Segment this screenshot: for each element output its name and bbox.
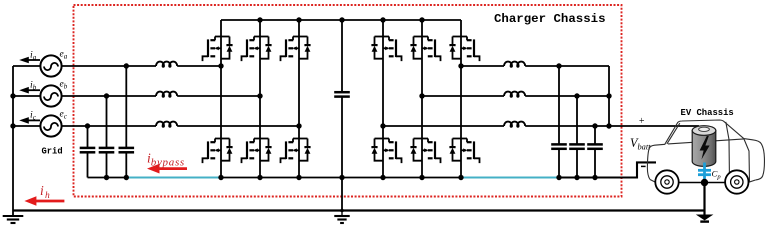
junction dots neutral bus [10, 93, 15, 128]
junction dots phase nodes [218, 63, 463, 128]
MOSFET S8 top leg Y mirrored [410, 37, 440, 62]
MOSFET S7 top leg X mirrored [371, 37, 401, 62]
wire phase b from source to bus [13, 95, 41, 97]
inductor Lo1 [504, 62, 525, 67]
MOSFET S3 top phase c [281, 37, 311, 62]
source eb [40, 85, 61, 106]
junction dot chassis [701, 179, 708, 186]
wire dc bottom rail [221, 177, 463, 179]
red arrow ih [34, 200, 64, 203]
wire phase c from source to bus [13, 125, 41, 127]
wire protective earth bottom [13, 209, 705, 211]
current arrow ib [27, 89, 40, 91]
filter capacitor branch Cfb (phase b) [106, 96, 108, 178]
junction dots filter caps [85, 63, 129, 180]
junction dot earth tap [340, 209, 344, 213]
MOSFET S11 bottom leg Y mirrored [410, 139, 440, 164]
wire ground tap [341, 178, 343, 211]
MOSFET S9 top leg Z mirrored [449, 37, 479, 62]
inductor La [156, 62, 177, 67]
MOSFET S12 bottom leg Z mirrored [449, 139, 479, 164]
wire phase a from source to bridge leg A [62, 65, 221, 67]
wire bridge leg A [220, 20, 222, 178]
wire phase a from source to bus [13, 65, 41, 67]
ground car chassis [696, 215, 714, 222]
MOSFET S10 bottom leg X mirrored [371, 139, 401, 164]
wire bridge leg C [298, 20, 300, 178]
MOSFET S1 top phase a [203, 37, 233, 62]
svg-text:Grid: Grid [42, 146, 63, 156]
source ea [40, 55, 61, 76]
wire phase b from source to bridge leg B [62, 95, 260, 97]
wire bridge leg Z [460, 20, 462, 178]
car body outline [647, 120, 764, 182]
junction dots bottom rail [218, 175, 597, 180]
wire output rail negative [558, 162, 657, 177]
inductor Lo2 [504, 92, 525, 97]
output capacitor Co2 [576, 96, 578, 178]
inductor Lo3 [504, 122, 525, 127]
junction dots top rail [257, 17, 424, 22]
wire chassis down [703, 181, 705, 215]
filter capacitor branch Cfc (phase c) [87, 126, 89, 178]
output capacitor Co3 [594, 126, 596, 178]
MOSFET S6 bottom phase c [281, 139, 311, 164]
wire bypass cyan right segment [462, 177, 558, 179]
filter capacitor branch Cfa (phase a) [125, 66, 127, 178]
svg-text:+: + [638, 116, 645, 127]
ground left [3, 211, 24, 224]
junction dots output lines [556, 63, 611, 128]
inductor Lb [156, 92, 177, 97]
charger chassis dashed boundary [74, 5, 622, 197]
wire neutral bus [12, 66, 14, 211]
current arrow ic [27, 119, 40, 121]
car wheel rear [725, 170, 748, 193]
svg-text:EV Chassis: EV Chassis [681, 108, 734, 118]
current arrow ia [27, 59, 40, 61]
label minus [641, 165, 646, 167]
wire bypass cyan left segment [129, 177, 221, 179]
battery pack [692, 126, 716, 167]
inductor Lc [156, 122, 177, 127]
car wheel front [655, 170, 678, 193]
dc link capacitor Cdc [341, 20, 343, 178]
wire dc top rail [221, 19, 461, 21]
source ec [40, 115, 61, 136]
capacitor Cp parasitic cyan [698, 163, 711, 182]
wire output line top [461, 65, 609, 67]
ground middle [334, 211, 349, 224]
MOSFET S5 bottom phase b [242, 139, 272, 164]
wire output bus [608, 66, 610, 126]
output capacitor Co1 [558, 66, 560, 178]
car underbody wire [656, 182, 747, 184]
red arrow i bypass [158, 167, 187, 170]
MOSFET S4 bottom phase a [203, 139, 233, 164]
wire bridge leg X [382, 20, 384, 178]
wire output line middle [422, 95, 609, 97]
wire bridge leg Y [421, 20, 423, 178]
wire phase c from source to bridge leg C [62, 125, 299, 127]
MOSFET S2 top phase b [242, 37, 272, 62]
wire output line bottom / battery positive [383, 125, 699, 127]
wire filter capacitor rail [88, 177, 129, 179]
svg-text:Charger Chassis: Charger Chassis [494, 12, 606, 26]
wire bridge leg B [259, 20, 261, 178]
